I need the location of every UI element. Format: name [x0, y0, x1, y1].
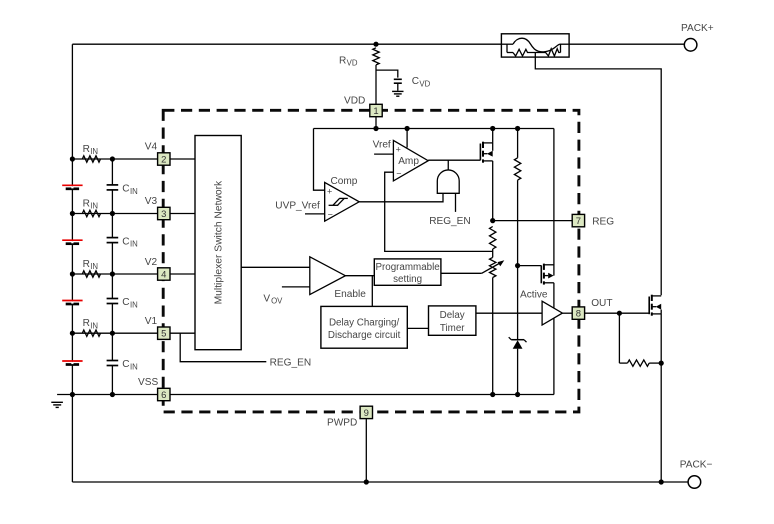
- and-gate U2: [437, 170, 459, 193]
- svg-text:Active: Active: [520, 290, 548, 301]
- transistor Q2: [540, 265, 542, 283]
- wire buffer to pin 8: [562, 312, 572, 314]
- svg-text:IN: IN: [90, 147, 98, 156]
- wire Q1 source to rail: [492, 129, 494, 143]
- resistor R3 internal: [514, 158, 520, 180]
- svg-text:7: 7: [576, 216, 581, 227]
- svg-text:5: 5: [161, 329, 166, 340]
- junction Active gate node: [515, 263, 520, 268]
- block Programmable setting: [374, 259, 441, 285]
- wire R3 down to zener: [517, 180, 519, 340]
- svg-text:VDD: VDD: [344, 96, 365, 107]
- wire right vertical below Q3: [660, 314, 662, 482]
- svg-text:OUT: OUT: [591, 298, 612, 309]
- junction Q3 source bottom rail: [659, 479, 664, 484]
- pin 1 VDD: [370, 104, 382, 116]
- junction R_VD top: [373, 42, 378, 47]
- capacitor C_VD: [394, 78, 402, 80]
- wire rail to Comp plus: [314, 129, 325, 191]
- svg-text:V2: V2: [145, 257, 158, 268]
- pin 7 REG: [572, 214, 584, 226]
- zener diode D1: [513, 340, 523, 348]
- svg-text:R: R: [339, 55, 346, 66]
- wire Delay to Timer: [407, 327, 428, 329]
- svg-text:4: 4: [161, 269, 166, 280]
- wire zener to VSS rail: [517, 349, 519, 395]
- thermal fuse F1: [501, 34, 569, 57]
- svg-text:IN: IN: [130, 187, 138, 196]
- wire R1 to R2: [492, 249, 494, 257]
- svg-text:setting: setting: [393, 274, 422, 285]
- svg-text:UVP_Vref: UVP_Vref: [275, 201, 320, 212]
- junction PWPD bottom: [364, 479, 369, 484]
- wire OUT node down: [618, 313, 620, 363]
- junction R4 right: [659, 361, 664, 366]
- svg-text:R: R: [83, 318, 90, 329]
- battery cell B1: [62, 184, 82, 186]
- wire bottom PACK- rail: [72, 481, 688, 483]
- svg-text:8: 8: [576, 309, 581, 320]
- svg-text:1: 1: [373, 106, 378, 117]
- junction: [70, 392, 75, 397]
- svg-text:C: C: [122, 297, 129, 308]
- wire rail to R3: [517, 129, 519, 158]
- wire Vref stub: [374, 153, 393, 155]
- wire row V2: [72, 273, 195, 275]
- junction REG node: [490, 218, 495, 223]
- svg-text:R: R: [83, 259, 90, 270]
- transistor Q3: [648, 297, 650, 315]
- resistor R2 adjustable: [490, 257, 496, 277]
- buffer Active driver: [542, 301, 562, 325]
- wire Programmable to wiper: [441, 272, 482, 274]
- ground symbol VSS: [51, 401, 63, 403]
- svg-text:V: V: [263, 293, 270, 304]
- ground symbol C_VD: [392, 90, 403, 92]
- junction: [70, 211, 75, 216]
- junction OUT node: [617, 311, 622, 316]
- svg-text:2: 2: [161, 154, 166, 165]
- wire R2 to VSS rail: [492, 278, 494, 395]
- wire R_VD to pin 1: [375, 65, 377, 104]
- buffer Enable: [310, 257, 346, 295]
- svg-text:C: C: [122, 236, 129, 247]
- wire UVP_Vref stub: [305, 213, 325, 215]
- svg-text:REG_EN: REG_EN: [270, 358, 312, 369]
- svg-text:Comp: Comp: [331, 176, 358, 187]
- svg-text:IN: IN: [90, 262, 98, 271]
- svg-text:Discharge circuit: Discharge circuit: [328, 330, 401, 341]
- junction R2 vss: [490, 392, 495, 397]
- svg-text:IN: IN: [130, 240, 138, 249]
- wire row V4: [72, 158, 195, 160]
- svg-text:OV: OV: [271, 297, 283, 306]
- wire Comp output to AND gate: [359, 193, 443, 202]
- svg-text:Delay: Delay: [440, 310, 465, 321]
- junction: [70, 156, 75, 161]
- wire Enable output: [345, 275, 374, 277]
- wire Q2 gate: [518, 265, 542, 267]
- svg-text:R: R: [83, 144, 90, 155]
- resistor R_IN row V4: [82, 156, 100, 162]
- wire VDD pin to rail: [375, 117, 377, 129]
- svg-text:IN: IN: [90, 321, 98, 330]
- wire internal VDD rail: [314, 128, 554, 130]
- terminal PACK-: [688, 476, 701, 489]
- transistor Q1: [479, 144, 481, 161]
- svg-text:3: 3: [161, 209, 166, 220]
- battery cell B2: [62, 239, 82, 241]
- capacitor C_IN 4: [107, 360, 119, 362]
- pin 3 V3: [158, 207, 170, 219]
- svg-text:Multiplexer Switch Network: Multiplexer Switch Network: [214, 180, 225, 304]
- wire DelayTimer to Active buffer: [476, 312, 542, 314]
- svg-text:Programmable: Programmable: [375, 262, 440, 273]
- resistor R4 gate-source: [619, 362, 627, 364]
- wire C_VD branch: [376, 70, 398, 78]
- pin 8 OUT: [572, 307, 584, 319]
- wire fuse to PACK+ terminal: [569, 43, 684, 45]
- block Multiplexer Switch Network: [195, 136, 241, 350]
- wire mux to Enable buffer: [241, 266, 310, 268]
- wire Q1 drain down: [492, 161, 494, 221]
- svg-text:VSS: VSS: [138, 377, 158, 388]
- svg-text:C: C: [122, 359, 129, 370]
- wire REG node to pin 7: [493, 220, 573, 222]
- svg-text:+: +: [396, 145, 401, 155]
- svg-text:Timer: Timer: [440, 323, 465, 334]
- wire row VSS: [57, 394, 554, 396]
- wire AND input REG_EN: [455, 193, 457, 212]
- resistor R_IN row V2: [82, 271, 100, 277]
- svg-text:PWPD: PWPD: [327, 418, 357, 429]
- wire pin 9 to bottom rail: [365, 419, 367, 482]
- wire C_IN column: [111, 159, 113, 185]
- wire row V1: [72, 332, 195, 334]
- wire top rail from battery plus to fuse: [72, 43, 501, 45]
- wire Amp output to Q1 gate: [428, 159, 480, 161]
- wire Q2 drain down to VSS rail: [553, 283, 555, 395]
- svg-text:REG_EN: REG_EN: [429, 216, 471, 227]
- svg-text:V1: V1: [145, 316, 158, 327]
- pin 4 V2: [158, 268, 170, 280]
- terminal PACK+: [684, 39, 697, 52]
- svg-text:IN: IN: [130, 363, 138, 372]
- battery cell B4: [62, 360, 82, 362]
- svg-text:+: +: [327, 187, 332, 197]
- svg-text:Amp: Amp: [398, 156, 419, 167]
- svg-text:VD: VD: [419, 79, 430, 88]
- capacitor C_IN 1: [107, 184, 119, 186]
- svg-text:IN: IN: [130, 301, 138, 310]
- wire Amp feedback: [385, 172, 493, 251]
- svg-text:REG: REG: [592, 216, 614, 227]
- resistor R1 internal: [490, 227, 496, 250]
- svg-text:VD: VD: [347, 59, 358, 68]
- capacitor C_IN 2: [107, 237, 119, 239]
- wire V_OV stub: [282, 286, 310, 288]
- wire row V3: [72, 213, 195, 215]
- wire rail to Amp top: [406, 129, 408, 148]
- block Delay Timer: [429, 306, 476, 335]
- svg-text:9: 9: [364, 408, 369, 419]
- wire left vertical battery stack: [71, 44, 73, 482]
- capacitor C_IN 3: [107, 298, 119, 300]
- svg-text:Delay Charging/: Delay Charging/: [329, 317, 400, 328]
- op-amp Amp: [393, 140, 428, 181]
- pin 2 V4: [158, 153, 170, 165]
- resistor R_VD: [373, 48, 379, 65]
- op-amp Comp: [324, 182, 326, 221]
- resistor R_IN row V3: [82, 210, 100, 216]
- svg-text:C: C: [122, 184, 129, 195]
- svg-text:−: −: [396, 168, 401, 178]
- svg-text:Vref: Vref: [373, 139, 391, 150]
- resistor R_IN row V1: [82, 330, 100, 336]
- svg-text:IN: IN: [90, 202, 98, 211]
- svg-text:R: R: [83, 198, 90, 209]
- block Delay Charging Discharge circuit: [321, 306, 407, 348]
- IC boundary dashed border: [163, 110, 579, 412]
- wire REG_EN from pin 5: [180, 333, 266, 362]
- junction: [70, 331, 75, 336]
- svg-text:PACK−: PACK−: [680, 460, 713, 471]
- wire fuse heater branch: [535, 53, 661, 296]
- junction: [70, 271, 75, 276]
- svg-text:6: 6: [161, 390, 166, 401]
- svg-text:−: −: [328, 209, 333, 219]
- pin 9 PWPD: [360, 406, 372, 418]
- battery cell B3: [62, 300, 82, 302]
- svg-text:V3: V3: [145, 196, 158, 207]
- junction zener vss: [515, 392, 520, 397]
- junction VDD rail: [373, 126, 378, 131]
- svg-text:C: C: [412, 76, 419, 87]
- wire pin 8 to Q3 gate: [585, 312, 650, 314]
- svg-text:PACK+: PACK+: [681, 23, 714, 34]
- svg-text:Enable: Enable: [334, 289, 366, 300]
- wire rail right corner down: [553, 129, 555, 266]
- svg-text:V4: V4: [145, 141, 158, 152]
- pin 6 VSS: [158, 388, 170, 400]
- pin 5 V1: [158, 327, 170, 339]
- wire AND output: [447, 160, 449, 170]
